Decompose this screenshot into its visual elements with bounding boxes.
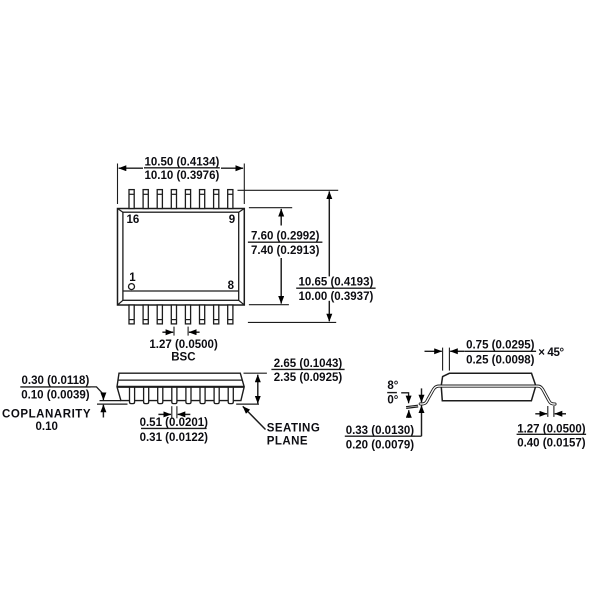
svg-text:0.25 (0.0098): 0.25 (0.0098) [466, 355, 535, 367]
dimension 10.65 extension lines [238, 190, 339, 322]
dimension 0.51 extension lines [172, 406, 177, 418]
svg-text:16: 16 [127, 214, 140, 226]
svg-text:0.40 (0.0157): 0.40 (0.0157) [517, 437, 586, 449]
side view inner top line [118, 379, 242, 381]
dimension text 1.27 (0.0500) / 0.40 (0.0157) [517, 423, 587, 449]
svg-text:1.27 (0.0500): 1.27 (0.0500) [149, 339, 218, 351]
svg-text:0.31 (0.0122): 0.31 (0.0122) [140, 432, 209, 444]
dimension 2.65 arrows [257, 375, 259, 404]
svg-text:PLANE: PLANE [267, 435, 308, 447]
dimension 7.60 arrows [280, 209, 282, 304]
svg-text:0.30 (0.0118): 0.30 (0.0118) [22, 375, 90, 387]
svg-text:0.75 (0.0295): 0.75 (0.0295) [466, 339, 535, 351]
dimension 7.60 extension lines [249, 208, 292, 305]
coplanarity up arrow [102, 405, 104, 418]
side view pins [130, 386, 234, 403]
dimension text 0.75 (0.0295) / 0.25 (0.0098) [464, 339, 536, 366]
angle leader down arrow [401, 393, 408, 403]
svg-text:1.27 (0.0500): 1.27 (0.0500) [517, 423, 586, 435]
dimension text 0.33 (0.0130) / 0.20 (0.0079) [345, 425, 415, 452]
svg-text:COPLANARITY: COPLANARITY [2, 409, 91, 421]
svg-text:10.50 (0.4134): 10.50 (0.4134) [144, 156, 219, 168]
lead thickness down arrow [421, 388, 423, 402]
svg-text:0.33 (0.0130): 0.33 (0.0130) [346, 425, 415, 437]
dimension 2.65 extension line [244, 372, 267, 374]
top view package inner molding rect [123, 212, 239, 300]
svg-text:10.00 (0.3937): 10.00 (0.3937) [298, 291, 373, 303]
dimension text 8deg / 0deg [387, 380, 399, 406]
label x 45 deg [538, 347, 564, 359]
pin label 1 [129, 272, 136, 284]
top view corner bevels [118, 209, 245, 306]
pin label 16 [127, 214, 140, 226]
end view package body outline [441, 373, 536, 400]
dimension 0.75 arrows [425, 350, 465, 352]
svg-text:BSC: BSC [171, 351, 195, 363]
label SEATING PLANE leader arrow [243, 406, 266, 429]
dimension text 10.65 (0.4193) / 10.00 (0.3937) [296, 277, 375, 304]
dimension text 0.51 (0.0201) / 0.31 (0.0122) [140, 417, 209, 444]
svg-text:2.65 (0.1043): 2.65 (0.1043) [274, 358, 343, 370]
pin label 9 [229, 214, 235, 226]
svg-text:0.10 (0.0039): 0.10 (0.0039) [21, 389, 90, 401]
label COPLANARITY 0.10 [2, 409, 91, 433]
svg-text:× 45°: × 45° [538, 347, 564, 359]
coplanarity leader down arrow [91, 387, 104, 400]
top view lower pins row (pins 1-8) [129, 305, 233, 324]
dimension 0.75 chamfer extension lines [443, 348, 450, 371]
dimension 10.65 arrows [328, 191, 330, 321]
dimension text 1.27 (0.0500) BSC [149, 339, 218, 363]
dimension 1.27 foot extension lines [548, 406, 554, 417]
side view package body outline [117, 373, 244, 400]
angle up arrow [408, 410, 410, 418]
side view mold parting line [117, 386, 244, 388]
dimension 1.27 foot arrows [535, 413, 566, 415]
tilted foot detail [406, 405, 418, 408]
svg-text:1: 1 [129, 272, 136, 284]
svg-text:10.65 (0.4193): 10.65 (0.4193) [298, 277, 373, 289]
top view package body outline [118, 209, 245, 306]
lead thickness up arrow and leader [415, 406, 422, 437]
svg-text:7.40 (0.2913): 7.40 (0.2913) [251, 245, 320, 257]
svg-text:0.51 (0.0201): 0.51 (0.0201) [140, 417, 209, 429]
dimension text 2.65 (0.1043) / 2.35 (0.0925) [271, 358, 344, 384]
dimension 1.27 BSC arrows [162, 331, 199, 333]
dimension 10.50 extension lines [118, 164, 245, 205]
svg-text:SEATING: SEATING [267, 423, 320, 435]
dimension text 7.60 (0.2992) / 7.40 (0.2913) [248, 230, 323, 257]
svg-text:0°: 0° [387, 394, 398, 406]
svg-text:0.20 (0.0079): 0.20 (0.0079) [346, 440, 415, 452]
seating plane line left [97, 401, 128, 405]
seating plane line right [236, 403, 259, 405]
dimension 1.27 BSC extension lines [174, 327, 188, 336]
svg-text:8: 8 [228, 280, 235, 292]
svg-text:9: 9 [229, 214, 235, 226]
svg-text:2.35 (0.0925): 2.35 (0.0925) [274, 372, 343, 384]
pin label 8 [228, 280, 235, 292]
dimension 0.51 arrows [158, 413, 190, 415]
dimension 10.50 arrows [119, 167, 243, 169]
pin 1 indicator circle [129, 284, 135, 290]
dimension text 10.50 (0.4134) / 10.10 (0.3976) [144, 156, 220, 182]
svg-text:0.10: 0.10 [36, 421, 58, 433]
svg-text:8°: 8° [387, 380, 398, 392]
label SEATING PLANE [267, 423, 320, 448]
top view upper pins row (pins 16-9) [129, 190, 233, 209]
svg-text:10.10 (0.3976): 10.10 (0.3976) [144, 170, 219, 182]
dimension text 0.30 (0.0118) / 0.10 (0.0039) [20, 375, 90, 401]
top view bottom inner line [123, 290, 239, 292]
end view gull-wing lead band [420, 386, 555, 404]
svg-text:7.60 (0.2992): 7.60 (0.2992) [251, 230, 320, 242]
